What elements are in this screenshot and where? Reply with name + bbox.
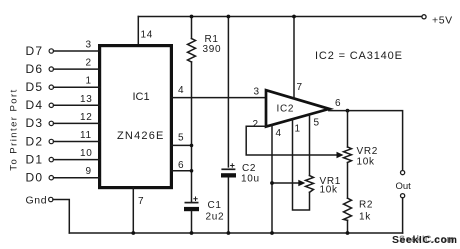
polarity mark C1 bbox=[193, 197, 197, 202]
wire ground bottom rail bbox=[69, 232, 402, 234]
terminal Out upper bbox=[401, 171, 405, 175]
svg-text:10k: 10k bbox=[320, 185, 339, 196]
svg-text:9: 9 bbox=[86, 166, 92, 177]
wire VR1 wiper to pin4 line bbox=[272, 182, 299, 184]
terminal D6 bbox=[49, 67, 53, 71]
wire IC2 pin 1 offset null to VR1 bottom bbox=[293, 120, 310, 210]
wire R2 bottom lead to ground rail bbox=[347, 220, 349, 233]
terminal Out lower bbox=[401, 194, 405, 198]
svg-text:To Printer Port: To Printer Port bbox=[9, 88, 20, 170]
junction R1/rail bbox=[190, 15, 194, 19]
wire C1 bottom lead to ground rail bbox=[191, 211, 193, 233]
svg-text:6: 6 bbox=[178, 160, 184, 171]
junction wiper/pin4 line bbox=[270, 181, 274, 185]
svg-text:D6: D6 bbox=[26, 62, 44, 76]
wire D3 to IC1 pin 12 bbox=[54, 122, 100, 124]
wire Out lower terminal to ground rail bbox=[402, 198, 404, 233]
junction output/VR2 bbox=[346, 109, 350, 113]
svg-text:D7: D7 bbox=[26, 44, 44, 58]
wire IC1 pin 14 to supply rail bbox=[137, 17, 139, 46]
svg-text:390: 390 bbox=[203, 44, 222, 55]
wire IC1 pin 6 bbox=[171, 170, 191, 172]
wire IC2 pin 2 feedback loop to VR2 wiper bbox=[246, 126, 339, 155]
wire C2 bottom lead to ground rail bbox=[227, 178, 229, 234]
wire R1 bottom lead down to C1 bbox=[191, 62, 193, 202]
svg-text:IC2: IC2 bbox=[277, 104, 295, 115]
svg-text:IC2 = CA3140E: IC2 = CA3140E bbox=[315, 50, 403, 62]
svg-text:4: 4 bbox=[178, 85, 184, 96]
svg-text:5: 5 bbox=[178, 132, 184, 143]
wire D1 to IC1 pin 10 bbox=[54, 159, 100, 161]
svg-text:3: 3 bbox=[86, 40, 92, 51]
junction R2/rail bbox=[346, 231, 350, 235]
resistor R1 zigzag bbox=[188, 39, 196, 63]
wire D2 to IC1 pin 11 bbox=[54, 141, 100, 143]
wire IC1 pin 5 bbox=[171, 144, 191, 146]
wire R1 top lead from rail bbox=[191, 17, 193, 39]
svg-text:+5V: +5V bbox=[432, 15, 453, 27]
svg-text:6: 6 bbox=[335, 98, 341, 109]
svg-text:10k: 10k bbox=[357, 157, 376, 168]
terminal D5 bbox=[49, 85, 53, 89]
wire D6 to IC1 pin 2 bbox=[54, 68, 100, 70]
resistor R2 zigzag bbox=[344, 198, 352, 220]
wire IC2 pin 7 supply bbox=[293, 17, 295, 99]
junction C2 line/rail bbox=[227, 15, 231, 19]
wire +5V top supply rail bbox=[138, 16, 422, 18]
svg-text:12: 12 bbox=[80, 112, 93, 123]
svg-text:7: 7 bbox=[297, 82, 303, 93]
svg-text:D3: D3 bbox=[26, 116, 44, 130]
wire IC1 pin 7 to ground rail bbox=[132, 188, 134, 233]
wire IC2 pin 6 output bbox=[329, 111, 403, 171]
svg-text:14: 14 bbox=[141, 30, 154, 41]
svg-text:10u: 10u bbox=[241, 174, 260, 185]
svg-text:Out: Out bbox=[396, 181, 412, 192]
wire D7 to IC1 pin 3 bbox=[54, 50, 100, 52]
svg-text:SeekIC.com: SeekIC.com bbox=[399, 234, 455, 246]
terminal +5V circle bbox=[422, 15, 426, 19]
terminal D2 bbox=[49, 139, 53, 143]
svg-text:C2: C2 bbox=[242, 163, 256, 174]
terminal D0 bbox=[49, 176, 53, 180]
wire VR2 top lead from output bbox=[347, 111, 349, 147]
svg-text:ZN426E: ZN426E bbox=[117, 130, 165, 142]
svg-text:5: 5 bbox=[314, 118, 320, 129]
svg-text:1k: 1k bbox=[359, 212, 371, 223]
potentiometer VR2 zigzag bbox=[344, 147, 352, 163]
svg-text:C1: C1 bbox=[208, 200, 222, 211]
svg-text:1: 1 bbox=[86, 76, 92, 87]
polarity mark C2 bbox=[230, 163, 234, 168]
op-amp U1 IC2 triangle bbox=[266, 90, 329, 126]
arrowhead VR2 wiper bbox=[337, 152, 344, 158]
svg-text:2u2: 2u2 bbox=[206, 212, 225, 223]
terminal D4 bbox=[49, 103, 53, 107]
svg-text:4: 4 bbox=[276, 128, 282, 139]
junction pin7/ground bbox=[131, 231, 135, 235]
junction pin5/vertical bbox=[190, 144, 194, 148]
capacitor C2 plates bbox=[221, 168, 235, 170]
junction pin6/vertical bbox=[190, 169, 194, 173]
svg-text:VR2: VR2 bbox=[357, 146, 379, 157]
terminal D7 bbox=[49, 49, 53, 53]
svg-text:7: 7 bbox=[138, 196, 144, 207]
svg-text:D1: D1 bbox=[26, 152, 44, 166]
svg-text:D5: D5 bbox=[26, 80, 44, 94]
wire IC2 pin 5 offset null to VR1 top bbox=[309, 115, 311, 176]
wire D0 to IC1 pin 9 bbox=[54, 177, 100, 179]
wire C2 branch from supply rail bbox=[227, 17, 229, 167]
terminal Gnd bbox=[49, 197, 53, 201]
junction pin7/rail bbox=[292, 15, 296, 19]
potentiometer VR1 zigzag bbox=[306, 176, 314, 193]
svg-text:D0: D0 bbox=[26, 171, 44, 185]
svg-text:11: 11 bbox=[80, 130, 92, 141]
terminal D3 bbox=[49, 121, 53, 125]
svg-text:2: 2 bbox=[86, 58, 92, 69]
svg-text:D4: D4 bbox=[26, 98, 44, 112]
svg-text:IC1: IC1 bbox=[133, 91, 150, 103]
svg-text:Gnd: Gnd bbox=[26, 194, 48, 206]
svg-text:D2: D2 bbox=[26, 134, 44, 148]
wire D4 to IC1 pin 13 bbox=[54, 104, 100, 106]
terminal D1 bbox=[49, 157, 53, 161]
wire IC1 pin 4 output to op-amp input bbox=[171, 97, 265, 99]
svg-text:3: 3 bbox=[254, 87, 260, 98]
svg-text:2: 2 bbox=[253, 119, 259, 130]
wire VR2 to R2 bbox=[347, 163, 349, 199]
wire Gnd to ground rail bbox=[53, 200, 69, 234]
wire IC2 pin 4 to ground rail bbox=[271, 125, 273, 233]
svg-text:R2: R2 bbox=[359, 200, 373, 211]
capacitor C1 plates bbox=[185, 202, 199, 204]
arrowhead VR1 wiper bbox=[298, 180, 305, 186]
wire D5 to IC1 pin 1 bbox=[54, 86, 100, 88]
svg-text:13: 13 bbox=[80, 94, 93, 105]
junction C1/rail bbox=[190, 231, 194, 235]
svg-text:10: 10 bbox=[80, 148, 93, 159]
junction pin4/rail bbox=[270, 231, 274, 235]
junction C2/rail bbox=[227, 231, 231, 235]
IC1 ZN426E DAC body bbox=[100, 46, 172, 188]
svg-text:1: 1 bbox=[295, 124, 301, 135]
